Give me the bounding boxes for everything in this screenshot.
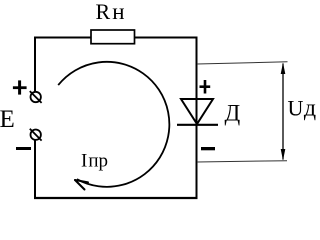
terminal X2 (-) circle with slash	[30, 129, 42, 141]
svg-text:Uд: Uд	[288, 96, 317, 122]
leader line bottom for Uд	[197, 161, 287, 162]
wire bottom side of loop	[34, 197, 198, 199]
dimension arrow Uд vertical line	[282, 64, 284, 160]
svg-text:Rн: Rн	[96, 0, 125, 24]
terminal X1 (+) circle with slash	[30, 91, 42, 103]
svg-text:Iпр: Iпр	[81, 151, 108, 172]
arrowhead of current arc	[75, 180, 88, 190]
arrowhead up	[281, 63, 286, 75]
wire right side of loop	[196, 37, 198, 200]
svg-text:Д: Д	[225, 101, 241, 126]
arrowhead down	[281, 149, 286, 161]
diode Д triangle (anode)	[181, 99, 213, 124]
diode Д cathode bar	[177, 124, 218, 126]
minus sign at source E	[16, 147, 31, 150]
leader line top for Uд	[197, 62, 288, 64]
plus sign at diode anode	[200, 80, 211, 94]
svg-text:E: E	[0, 106, 15, 133]
wire left side lower segment	[34, 140, 36, 199]
minus sign at diode cathode	[201, 147, 215, 150]
resistor Rн body	[91, 30, 135, 44]
plus sign at source E	[13, 80, 27, 94]
wire top side of loop	[34, 37, 198, 39]
wire left side upper segment	[34, 37, 36, 92]
current direction arc Iпр	[58, 62, 169, 187]
